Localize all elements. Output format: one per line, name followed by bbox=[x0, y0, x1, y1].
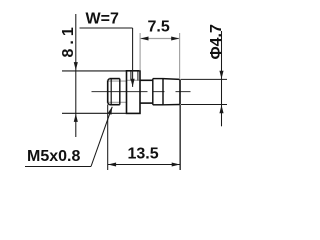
leader W=7 horizontal bbox=[80, 27, 133, 29]
barb ring bottom bbox=[153, 104, 163, 106]
dim 7.5 ext right (thin) bbox=[179, 33, 181, 79]
thread chamfer boundary bbox=[110, 79, 112, 105]
dim 13.5 line bbox=[108, 164, 180, 166]
dim 7.5 arrow right bbox=[171, 36, 179, 40]
dim 13.5 arrow left bbox=[108, 162, 116, 166]
barb ring left edge bbox=[152, 79, 154, 105]
dim 7.5 line (thin) bbox=[140, 38, 179, 40]
dim 8.1 extension bottom bbox=[62, 112, 126, 114]
dim phi4.7 line bbox=[221, 31, 223, 126]
svg-text:13.5: 13.5 bbox=[128, 146, 159, 163]
thread minor line top (thin) bbox=[108, 80, 127, 82]
thread chamfer bottom bbox=[108, 103, 110, 105]
thread minor line bottom (thin) bbox=[108, 101, 127, 103]
hex facet line bbox=[127, 79, 140, 81]
leader M5x0.8 diagonal bbox=[91, 107, 112, 167]
hex chamfer arc right bbox=[137, 71, 139, 80]
hex body bbox=[127, 71, 141, 114]
leader W=7 vertical bbox=[132, 28, 134, 87]
barb ring top bbox=[153, 78, 163, 80]
thread face bbox=[107, 80, 109, 103]
dim phi4.7 ext top bbox=[181, 78, 227, 80]
dim 13.5 arrow right bbox=[172, 162, 180, 166]
end face bbox=[179, 79, 181, 104]
dim 8.1 extension top bbox=[62, 70, 126, 72]
svg-text:8.1: 8.1 bbox=[60, 23, 77, 57]
thread major top bbox=[109, 78, 119, 80]
dim phi4.7 arrow bottom bbox=[219, 105, 223, 113]
svg-text:Φ4.7: Φ4.7 bbox=[208, 24, 225, 59]
svg-text:W=7: W=7 bbox=[86, 11, 119, 28]
leader M5x0.8 underline bbox=[25, 166, 91, 168]
dim 7.5 ext left (thin) bbox=[139, 33, 141, 71]
svg-text:M5x0.8: M5x0.8 bbox=[27, 148, 80, 165]
neck bottom bbox=[140, 102, 153, 104]
dim 7.5 arrow left bbox=[140, 36, 148, 40]
thread end bbox=[119, 79, 121, 105]
barb cone top bbox=[163, 78, 180, 81]
dim phi4.7 arrow top bbox=[219, 71, 223, 79]
dim phi4.7 ext bottom bbox=[181, 104, 227, 106]
dim 8.1 arrow bottom bbox=[74, 114, 78, 122]
leader M5x0.8 arrow bbox=[108, 107, 113, 115]
barb cone bottom bbox=[163, 104, 180, 106]
dim 8.1 line bbox=[75, 14, 77, 137]
svg-text:7.5: 7.5 bbox=[148, 18, 170, 35]
barb ring right edge bbox=[162, 79, 164, 105]
dim 13.5 ext left bbox=[107, 105, 109, 171]
neck top bbox=[140, 79, 153, 81]
hex chamfer arc left bbox=[130, 71, 132, 80]
dim 13.5 ext right bbox=[179, 105, 181, 170]
thread major bottom bbox=[109, 104, 119, 106]
dim 8.1 arrow top bbox=[74, 62, 78, 70]
centerline bbox=[92, 91, 191, 93]
leader W=7 arrow bbox=[131, 79, 135, 87]
thread chamfer top bbox=[108, 79, 110, 81]
